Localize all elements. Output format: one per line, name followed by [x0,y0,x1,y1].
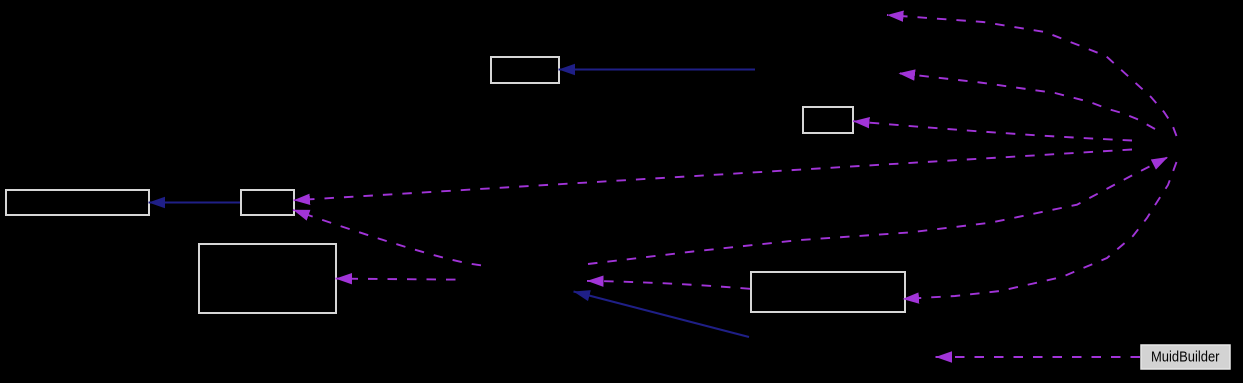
edge M1: right node X curving to far top arrowhead [887,15,1177,136]
edge M10: MuidBuilder to invisible node at bottom [936,356,1141,358]
node C (empty label box, left long) [6,190,149,215]
edge M7: node F to center node Z [587,281,750,289]
edge M3: right node X to node B [853,121,1132,140]
edge M5: center node Z up-left to node D [293,210,481,265]
edge M6: center node Z to node E [336,279,456,280]
node E (empty label box, lower left large) [199,244,336,313]
edge M2: right node X to arrowhead near (899,74) [899,73,1156,129]
edge M8: center node Z curving up-right into right node X [588,157,1168,264]
node F (empty label box, lower middle) [751,272,905,312]
edge blue B1: invisible node to node A [559,69,756,71]
node B (empty label box, upper right) [803,107,853,133]
node A (empty label box, top middle) [491,57,559,83]
edge blue B2: node D to node C [149,202,241,204]
edge blue B3: invisible node to center node Z [574,292,750,338]
edge M4: right node X long straight line to node D [294,150,1133,201]
edge M9: right node X curving down to node F [903,162,1177,299]
node D (empty label box, left small) [241,190,294,215]
svg-text:MuidBuilder: MuidBuilder [1151,350,1220,366]
node MuidBuilder (current node, gray filled) [1141,345,1230,369]
